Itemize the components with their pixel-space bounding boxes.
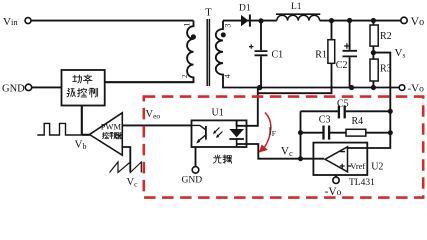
svg-text:Vo: Vo [411, 14, 425, 28]
svg-text:Veo: Veo [146, 109, 161, 121]
svg-text:TL431: TL431 [349, 178, 375, 188]
svg-text:R4: R4 [352, 116, 364, 127]
svg-text:R2: R2 [380, 31, 392, 42]
svg-text:Vc: Vc [127, 177, 139, 189]
svg-text:Vref: Vref [350, 161, 365, 171]
svg-text:PWM: PWM [101, 121, 122, 131]
svg-text:D1: D1 [239, 3, 251, 13]
svg-text:C2: C2 [336, 60, 348, 71]
svg-text:2: 2 [181, 74, 189, 78]
svg-text:1: 1 [182, 23, 192, 27]
svg-text:Vin: Vin [3, 16, 18, 28]
svg-text:GND: GND [2, 84, 25, 95]
svg-text:Vc: Vc [281, 146, 293, 159]
svg-text:C1: C1 [272, 50, 284, 61]
svg-text:L1: L1 [291, 2, 302, 12]
svg-text:GND: GND [182, 176, 203, 186]
svg-text:-Vo: -Vo [408, 83, 425, 95]
svg-text:C5: C5 [337, 98, 349, 109]
svg-text:R3: R3 [380, 64, 392, 75]
svg-text:3: 3 [223, 24, 232, 28]
svg-text:-Vo: -Vo [325, 186, 342, 198]
svg-text:Vs: Vs [395, 47, 406, 60]
svg-text:U2: U2 [371, 161, 383, 172]
svg-text:4: 4 [223, 74, 232, 78]
svg-text:U1: U1 [212, 108, 224, 119]
svg-text:R1: R1 [315, 50, 327, 61]
svg-text:Vb: Vb [75, 139, 87, 152]
svg-text:T: T [205, 7, 212, 18]
svg-text:IF: IF [268, 126, 276, 138]
svg-text:C3: C3 [319, 115, 331, 126]
